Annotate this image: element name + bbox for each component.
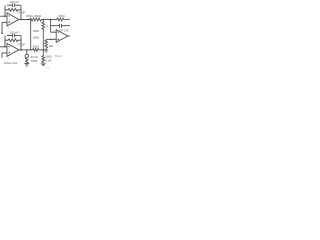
node at A1 output [20,19,22,21]
node bottom bus chain [30,49,31,50]
node top bus at inverting branch [50,19,51,20]
capacitor C2 [7,34,21,38]
svg-text:Differential: Differential [4,61,18,65]
capacitor C1 [7,3,21,7]
op-amp A1 part label [17,12,26,15]
wire A1 inverting input [0,15,7,17]
op-amp A2 part label [17,43,26,46]
label P1 line1 [31,55,38,59]
label 500 pF note [55,56,63,58]
op-amp A1 plus sign [8,21,10,23]
svg-text:360Ω: 360Ω [58,14,65,18]
wire inverting branch down [51,20,57,33]
svg-text:500 pF: 500 pF [55,56,63,58]
resistor R2 (feedback) [5,39,21,42]
trimmer P1 stub [26,50,28,54]
svg-text:LT1057: LT1057 [17,12,26,15]
node at A2 inverting input [4,46,6,48]
label chain value 1 [33,29,40,33]
ground for R9 [41,63,46,65]
svg-text:50 kΩ: 50 kΩ [31,55,38,59]
label R9 line1 [45,55,51,59]
wire feedback right vertical [20,36,22,50]
capacitor C3 branch [51,24,70,28]
node bottom bus x21 [20,49,21,50]
wire A1 non-inverting input [2,22,7,33]
node at A2 output [20,49,22,51]
svg-text:360Ω–360Ω: 360Ω–360Ω [26,14,41,18]
wire A2 inverting input [0,46,7,48]
wire feedback left vertical [4,36,6,47]
svg-text:TRIM: TRIM [31,59,37,63]
label R3 R4 values [26,14,41,18]
resistor R9 vertical [42,50,45,63]
wire A3 output [68,35,70,37]
ground for R7 [44,50,48,52]
label R7 [49,45,54,48]
svg-text:180Ω: 180Ω [33,29,40,33]
svg-text:LT1057: LT1057 [17,43,26,46]
svg-text:1%: 1% [46,68,49,70]
pin 2 label [53,31,55,33]
label Differential [4,61,18,65]
op-amp A3 minus sign [58,31,60,33]
svg-text:OP-27E: OP-27E [60,29,69,32]
svg-text:180Ω: 180Ω [33,36,40,40]
wire gain chain vertical [30,20,32,50]
pin digit A2 [8,58,10,60]
op-amp A3 part label [60,29,69,32]
label R5 [46,26,49,28]
svg-text:360Ω: 360Ω [33,46,39,49]
resistor R1 (feedback) [5,8,21,11]
wire feedback right vertical [20,5,22,19]
capacitor C2 value label 100 pF [10,31,20,35]
op-amp A3 [56,30,68,43]
op-amp A1 minus sign [8,15,10,17]
svg-text:1kΩ: 1kΩ [49,45,54,48]
op-amp A2 minus sign [8,46,10,48]
pin digit A1 [8,27,10,29]
op-amp A2 plus sign [8,52,10,54]
pin 3 label [53,38,55,40]
wire top bus continues [42,19,58,21]
resistor R3 [30,18,42,21]
capacitor C1 value label 100 pF [10,0,20,4]
resistor R6 [57,18,70,21]
node on + wire [50,39,51,40]
resistor R5 vertical [42,20,45,50]
ground for P1 [24,64,29,66]
node end of + input stub [1,32,3,34]
node bottom bus R9 [43,49,44,50]
node top bus at R5 [43,19,44,20]
label small note [46,68,49,70]
wire A2 non-inverting input [2,53,7,58]
wire bottom bus [19,49,33,51]
label R9 line2 [45,58,52,62]
node at A1 inverting input [4,15,6,17]
node top bus x21 [28,19,29,20]
resistor R8 [33,48,40,51]
trimmer P1 resistor [26,58,29,64]
wire top bus [19,19,30,21]
label R6 value [58,14,65,18]
label chain value 2 [33,36,40,40]
trimmer P1 circle [25,54,29,58]
label P1 line2 [31,59,37,63]
label R8 value [33,46,39,49]
op-amp A2 [7,43,19,56]
wire feedback left vertical [4,5,6,16]
node bottom bus pot [26,49,27,50]
op-amp A3 plus sign [58,39,60,41]
op-amp A1 [7,13,19,26]
wire bottom bus continues [39,49,46,51]
resistor R7 vertical to ground [45,39,48,50]
wire A3 non-inverting input [46,38,56,40]
svg-text:500Ω: 500Ω [45,55,51,59]
svg-text:0.1%: 0.1% [45,58,52,62]
